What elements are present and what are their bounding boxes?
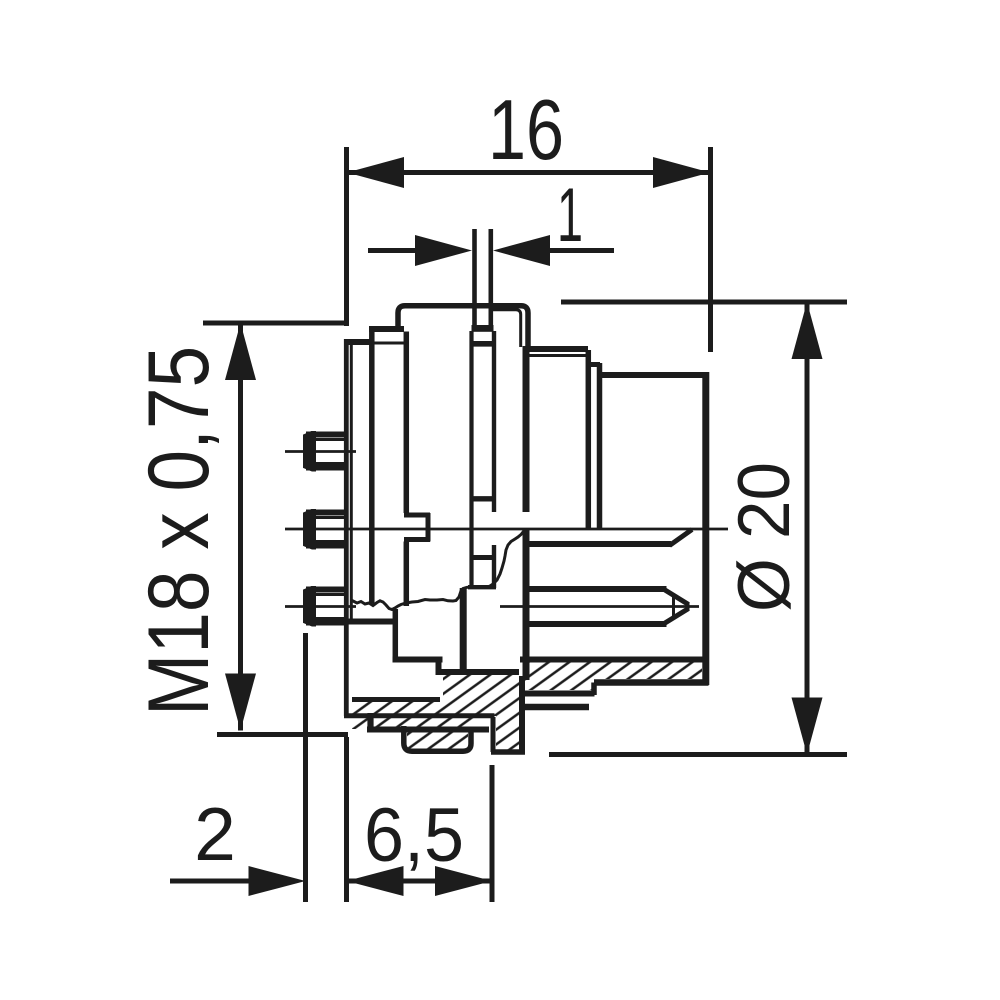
cap inner top thin line	[493, 310, 521, 347]
dimension 16 line	[347, 170, 710, 175]
contact pin 2 tip flat	[686, 602, 690, 611]
extension line 16 right	[708, 147, 713, 352]
rear bar 2	[519, 704, 589, 711]
inner sleeve vertical lower	[404, 542, 410, 607]
pin 2 center line	[500, 605, 699, 608]
solder lug C	[304, 587, 348, 627]
svg-text:1: 1	[557, 173, 583, 258]
slot bottom fill	[472, 325, 494, 332]
hatch front-left band	[352, 702, 443, 730]
hatch rear band right	[594, 662, 702, 679]
hatch front mid region	[443, 674, 475, 729]
extension line M18 top	[203, 321, 346, 326]
tab B left edge	[491, 717, 496, 752]
bottom line B	[367, 727, 489, 733]
dimension 6,5 line	[347, 879, 493, 884]
contact pin 2 bottom edge	[523, 621, 667, 627]
insulator bottom edge left	[393, 657, 443, 663]
extension line M18 bottom	[217, 732, 348, 737]
inner shell vertical below squiggle	[393, 609, 399, 662]
dimension M18 bottom arrow	[225, 674, 256, 731]
mid-section top inner thin line	[529, 354, 588, 357]
tab A outline	[404, 726, 471, 751]
dimension 1 left arrow	[415, 235, 472, 266]
cap step edge	[369, 326, 404, 332]
dimension 16 right arrow	[653, 157, 710, 188]
tab B bottom edge	[491, 749, 525, 755]
dimension 6,5 right arrow	[435, 866, 492, 896]
skirt bottom edge / line A	[344, 713, 495, 718]
dimension M18 line	[238, 323, 243, 731]
washer front line	[586, 350, 592, 529]
solder lug B	[304, 510, 348, 550]
svg-text:M18 x 0,75: M18 x 0,75	[131, 346, 227, 716]
extension line 6,5 left	[344, 737, 349, 902]
slot right edge / extension line of dim 1	[488, 229, 493, 331]
svg-text:6,5: 6,5	[364, 793, 464, 878]
channel bridge 2	[470, 496, 497, 501]
rear hatch top line	[520, 657, 703, 663]
contact pin 2 tip lower chamfer	[665, 609, 689, 624]
insulator right edge upper	[523, 346, 530, 512]
key notch vertical	[426, 513, 431, 542]
rear cylinder top edge	[600, 372, 709, 378]
svg-text:2: 2	[194, 792, 236, 876]
dimension 16 left arrow	[347, 157, 404, 188]
lug C / pin 2 center line	[285, 605, 356, 608]
dimension 2 line	[170, 879, 250, 884]
contact pin 2 top edge	[523, 586, 667, 592]
cap outline (top + left + right edges)	[369, 306, 528, 349]
inner sleeve vertical upper	[404, 332, 410, 514]
extension line 2 left	[303, 633, 308, 902]
channel right wall upper	[492, 331, 496, 512]
svg-text:16: 16	[488, 83, 564, 178]
solder lug A	[304, 432, 348, 472]
washer step top	[588, 362, 600, 367]
flange top edge	[344, 339, 372, 345]
hatch rear band left	[525, 662, 594, 690]
hatch band top line	[352, 697, 440, 702]
dimension 1 right line	[548, 248, 614, 253]
extension line D20 top	[561, 300, 847, 305]
flange front face inner line	[350, 345, 353, 620]
key notch lower horizontal	[404, 537, 430, 542]
break line (squiggle)	[352, 530, 525, 610]
slot left edge / extension line of dim 1	[472, 229, 477, 331]
channel left wall	[469, 331, 473, 588]
key notch upper horizontal	[404, 513, 430, 518]
flange front face	[344, 339, 349, 716]
thread shoulder vertical	[369, 326, 375, 604]
hatch above slot region	[475, 674, 489, 716]
extension line 6,5 right	[490, 765, 495, 902]
contact pin 2 cone base line	[672, 594, 675, 619]
main center line	[285, 528, 728, 531]
channel bridge 3	[470, 555, 497, 560]
rear cylinder bottom edge	[594, 679, 709, 686]
lug A center line	[285, 450, 356, 453]
channel bottom	[468, 585, 496, 589]
contact pin 1 tip chamfer	[670, 530, 693, 546]
dimension D20 bottom arrow	[792, 698, 823, 755]
carrier vertical edge	[460, 588, 467, 674]
rear bar 1	[523, 691, 595, 697]
extension line 16 left	[344, 147, 349, 326]
mid-section top edge	[524, 346, 588, 352]
insulator bottom step	[436, 657, 442, 675]
channel right wall lower	[492, 545, 496, 588]
hatch right of slot region	[489, 674, 519, 750]
dimension 1 left line	[368, 248, 425, 253]
extension line D20 bottom	[549, 752, 847, 757]
cap step inner thin line	[372, 342, 404, 345]
contact pin 1 (half, on center line) bottom edge	[524, 541, 671, 547]
svg-text:Ø 20: Ø 20	[724, 462, 805, 612]
dimension D20 top arrow	[792, 302, 823, 359]
channel bridge 1	[470, 341, 497, 347]
dimension 6,5 left arrow	[347, 866, 404, 896]
rear step vertical	[591, 683, 597, 696]
flange bottom edge	[311, 619, 396, 625]
dimension D20 line	[805, 302, 810, 755]
washer rear line	[597, 363, 603, 529]
dimension 1 right arrow	[493, 235, 550, 266]
hatch tab A interior	[407, 731, 468, 749]
dimension M18 top arrow	[225, 323, 256, 380]
insulator right edge bottom	[519, 676, 525, 755]
insulator right edge lower	[523, 528, 530, 680]
dimension 2 arrow	[249, 866, 306, 896]
insulator bottom edge right	[436, 669, 519, 675]
rear cylinder rear face	[702, 372, 709, 685]
skirt bottom step	[367, 713, 373, 730]
contact pin 2 tip upper chamfer	[665, 590, 689, 605]
